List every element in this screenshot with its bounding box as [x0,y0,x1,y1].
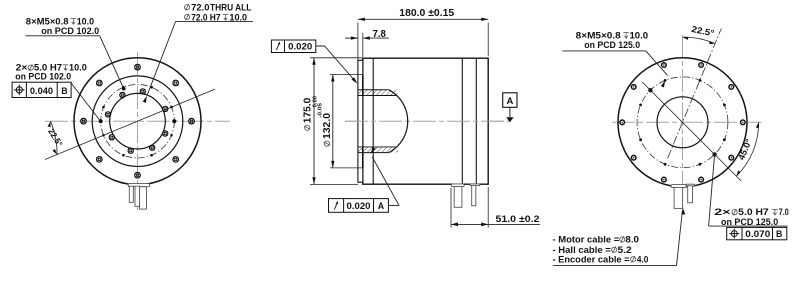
svg-text:on PCD 125.0: on PCD 125.0 [721,217,778,227]
svg-text:72.0 H7: 72.0 H7 [191,12,220,22]
svg-text:180.0 ±0.15: 180.0 ±0.15 [399,8,454,19]
svg-text:on PCD 102.0: on PCD 102.0 [41,26,99,36]
svg-text:0.020: 0.020 [347,201,371,211]
svg-text:51.0 ±0.2: 51.0 ±0.2 [496,214,540,225]
svg-text:on PCD 125.0: on PCD 125.0 [584,40,640,50]
svg-text:on PCD 102.0: on PCD 102.0 [15,71,71,81]
svg-text:2×: 2× [714,207,731,217]
svg-text:5.0 H7: 5.0 H7 [738,207,769,217]
svg-text:8.0: 8.0 [625,235,639,245]
svg-text:132.0: 132.0 [322,113,333,139]
svg-text:7.0: 7.0 [779,207,789,217]
svg-text:0.070: 0.070 [745,229,770,239]
svg-text:0.040: 0.040 [30,86,53,96]
svg-text:A: A [506,96,513,107]
svg-text:B: B [776,229,782,239]
svg-text:10.0: 10.0 [229,12,247,22]
svg-text:-0.05: -0.05 [318,102,324,117]
svg-text:B: B [61,86,67,96]
svg-text:10.0: 10.0 [69,62,87,72]
svg-text:THRU ALL: THRU ALL [210,2,252,12]
svg-text:- Encoder cable =: - Encoder cable = [553,255,631,265]
svg-text:A: A [378,201,385,211]
svg-text:0.020: 0.020 [288,42,312,52]
svg-text:72.0: 72.0 [191,2,209,12]
svg-text:4.0: 4.0 [637,255,648,265]
svg-text:- Motor cable =: - Motor cable = [553,235,620,245]
